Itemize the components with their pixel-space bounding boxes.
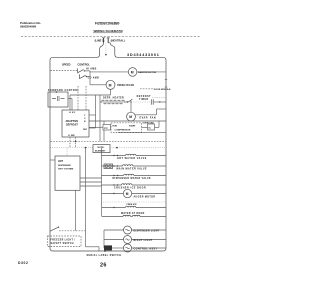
svg-text:CRUSHER ICE DOOR: CRUSHER ICE DOOR: [114, 188, 146, 190]
svg-text:LO AMB: LO AMB: [88, 76, 99, 79]
svg-text:SERIAL LABEL SWITCH: SERIAL LABEL SWITCH: [87, 254, 122, 257]
svg-text:M: M: [126, 192, 129, 196]
svg-text:RUN: RUN: [113, 125, 118, 127]
svg-text:SAFETY SWITCH: SAFETY SWITCH: [51, 242, 74, 245]
svg-text:L1 DEF: L1 DEF: [68, 135, 76, 137]
svg-text:HOT: HOT: [58, 160, 64, 163]
svg-text:WATER AT DOOR: WATER AT DOOR: [121, 212, 145, 215]
svg-text:M: M: [109, 83, 112, 87]
svg-text:DEFROST: DEFROST: [66, 123, 78, 126]
svg-text:MAIN WATER VALVE: MAIN WATER VALVE: [117, 168, 148, 171]
svg-text:M: M: [131, 70, 134, 74]
svg-text:DISPENSER WATER VALVE: DISPENSER WATER VALVE: [113, 177, 151, 180]
svg-text:SPEED: SPEED: [62, 63, 71, 66]
svg-text:CONTROL ASSY: CONTROL ASSY: [134, 247, 158, 250]
svg-text:3D454433001: 3D454433001: [127, 53, 160, 57]
svg-text:AUGER MOTOR: AUGER MOTOR: [134, 196, 156, 199]
svg-text:(NEUTRAL): (NEUTRAL): [111, 38, 125, 42]
svg-text:NOTE:: NOTE:: [98, 147, 105, 149]
svg-text:DISPENSER: DISPENSER: [58, 165, 71, 167]
svg-text:NIGHT LIGHT: NIGHT LIGHT: [134, 240, 153, 242]
svg-text:WIRING SCHEMATIC: WIRING SCHEMATIC: [94, 29, 124, 33]
svg-text:26: 26: [100, 262, 107, 268]
svg-text:DEFROST: DEFROST: [137, 96, 152, 98]
svg-text:FU5DB72NE8B0: FU5DB72NE8B0: [95, 21, 120, 25]
svg-text:OVERLOAD: OVERLOAD: [143, 122, 155, 125]
svg-text:TIMER: TIMER: [139, 99, 149, 101]
svg-text:FORWARD CONTROL: FORWARD CONTROL: [48, 89, 79, 92]
svg-text:L1 N C: L1 N C: [69, 112, 76, 114]
svg-text:FREEZER LIGHT /: FREEZER LIGHT /: [51, 240, 76, 242]
svg-text:ELEMENT: ELEMENT: [95, 150, 106, 152]
svg-text:COMPRESSOR: COMPRESSOR: [115, 130, 131, 132]
svg-text:HI AMB: HI AMB: [86, 68, 96, 71]
svg-text:DISPENSER LIGHT: DISPENSER LIGHT: [134, 230, 160, 232]
svg-text:DAMPER MOTOR: DAMPER MOTOR: [138, 71, 157, 74]
svg-text:(LINE 1): (LINE 1): [95, 39, 105, 43]
svg-text:HOT WATER VALVE: HOT WATER VALVE: [117, 157, 147, 160]
svg-text:FREE ICE: FREE ICE: [127, 204, 138, 206]
svg-text:PTC: PTC: [104, 128, 109, 130]
svg-text:CONTROL: CONTROL: [78, 63, 91, 66]
svg-text:'KEY' SYSTEM: 'KEY' SYSTEM: [58, 168, 73, 170]
svg-text:START: START: [129, 124, 136, 127]
svg-text:FRESH FD FAN: FRESH FD FAN: [117, 84, 134, 87]
svg-text:D302: D302: [18, 261, 29, 265]
svg-text:DOOR MODULE: DOOR MODULE: [154, 89, 171, 91]
svg-text:M: M: [129, 115, 132, 119]
svg-text:5995354966: 5995354966: [20, 25, 36, 29]
svg-text:DEFR. HEATER: DEFR. HEATER: [103, 97, 124, 100]
svg-text:EVAP. FAN: EVAP. FAN: [140, 117, 157, 120]
